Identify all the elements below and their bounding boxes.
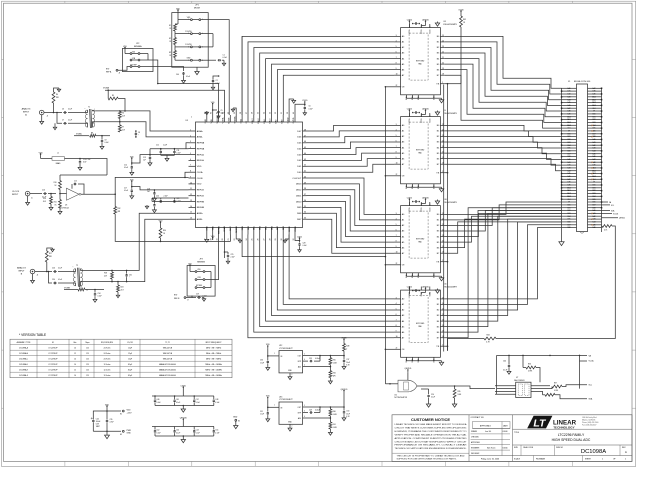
- svg-text:VERIFY PROPER AND RELIABLE OPE: VERIFY PROPER AND RELIABLE OPERATION IN …: [395, 434, 468, 437]
- U11 ground symbol: [434, 360, 442, 362]
- svg-text:VDD: VDD: [176, 8, 181, 10]
- svg-text:52: 52: [275, 112, 277, 114]
- svg-text:5: 5: [396, 46, 397, 48]
- junction J1 right gnd: [601, 144, 603, 146]
- U9 pin A2: [394, 136, 401, 138]
- U11 pin T/B: [440, 345, 444, 347]
- resistor R40 1.05K: [329, 407, 331, 409]
- svg-text:22: 22: [234, 239, 236, 241]
- J1 left pin row 45: [562, 212, 577, 214]
- capacitor C50 0.1uF: [174, 427, 176, 430]
- svg-text:2.2uF: 2.2uF: [164, 196, 168, 198]
- U5 pin 1 AINA+: [189, 130, 196, 132]
- svg-text:R48: R48: [346, 346, 349, 348]
- wire U10 B1 to J1 row 42: [444, 205, 561, 220]
- junction J1 left gnd: [561, 167, 563, 169]
- svg-text:MUX: MUX: [230, 225, 232, 230]
- U9 pin B0: [440, 124, 444, 126]
- U5 pin 5 REFLA: [189, 154, 196, 156]
- svg-text:125: 125: [86, 369, 89, 371]
- U11 pin A6: [394, 331, 401, 333]
- wire OE stub: [385, 175, 394, 177]
- J1 left pin row 27: [562, 161, 577, 163]
- svg-text:10: 10: [74, 364, 76, 366]
- resistor R6 24.9 shunt: [119, 110, 121, 112]
- wire EXT REF A to JP2 row3: [118, 67, 130, 71]
- svg-text:EXPOSED: EXPOSED: [416, 150, 425, 152]
- svg-text:0.1uF: 0.1uF: [105, 142, 109, 144]
- svg-text:LT: LT: [533, 418, 547, 430]
- wire T/B bus to R34: [448, 339, 450, 351]
- svg-text:SCL: SCL: [589, 385, 593, 387]
- svg-text:10: 10: [74, 347, 76, 349]
- svg-text:C7: C7: [62, 120, 64, 122]
- capacitor C11 0.1uF channel A rail: [174, 148, 176, 150]
- svg-text:J3: J3: [119, 73, 121, 75]
- svg-text:C29: C29: [196, 294, 199, 296]
- U8 pin A6: [394, 69, 401, 71]
- inverter U3 NC7SVU04 clock buffer: [67, 188, 80, 200]
- U5 pin 32 OVDD: [294, 228, 296, 235]
- svg-text:Friday, June 16, 2006: Friday, June 16, 2006: [481, 458, 499, 461]
- svg-text:0.1uF: 0.1uF: [221, 113, 225, 115]
- resistor R11 1K bias lower: [59, 194, 61, 200]
- svg-text:CLKB: CLKB: [197, 178, 203, 180]
- svg-text:12: 12: [74, 353, 76, 355]
- svg-text:QEVDD: QEVDD: [422, 197, 429, 199]
- ground J1 left bus: [559, 240, 564, 246]
- U8 pin B5: [440, 63, 444, 65]
- svg-text:2.2uF: 2.2uF: [231, 257, 235, 259]
- svg-text:C55: C55: [215, 430, 218, 432]
- connector J5 BNC clock: [25, 191, 30, 196]
- svg-text:DB4: DB4: [593, 196, 596, 198]
- U5 pin 55 DA12: [259, 115, 261, 122]
- svg-text:C16: C16: [42, 190, 45, 192]
- wire OE stub: [385, 348, 394, 350]
- svg-text:0.1uF: 0.1uF: [98, 296, 102, 298]
- svg-text:C12: C12: [156, 145, 159, 147]
- svg-text:0.1uF: 0.1uF: [124, 167, 128, 169]
- wire DA7 ADC top to U8 A6: [277, 70, 394, 115]
- J1 left pin row 46: [562, 215, 577, 217]
- svg-text:R11: R11: [54, 202, 57, 204]
- wire REFHB rails: [152, 197, 189, 199]
- svg-text:DALC208SC6: DALC208SC6: [514, 379, 525, 382]
- svg-text:C9,C31: C9,C31: [127, 342, 133, 344]
- wire OE stub: [385, 86, 394, 88]
- J1 left pin row 16: [562, 130, 577, 132]
- svg-text:SUPPLIED FOR USE WITH LINEAR T: SUPPLIED FOR USE WITH LINEAR TECHNOLOGY …: [397, 458, 457, 461]
- wire U8 B3 to J1 row 7: [444, 53, 561, 105]
- junction J1 left gnd: [561, 113, 563, 115]
- svg-text:7: 7: [396, 57, 397, 59]
- J1 left pin row 2: [562, 90, 577, 92]
- svg-text:3: 3: [396, 124, 397, 126]
- wire DB5 ADC bottom to U11 A1: [283, 235, 394, 305]
- connector J4 BNC input B: [30, 269, 35, 274]
- svg-text:DB5: DB5: [593, 128, 596, 130]
- svg-text:12pF: 12pF: [128, 353, 132, 355]
- svg-text:U6: U6: [394, 394, 396, 396]
- svg-text:39: 39: [304, 182, 306, 184]
- U9 ground pins: [405, 184, 407, 187]
- svg-text:125: 125: [86, 364, 89, 366]
- capacitor C44 0.1uF: [183, 72, 185, 73]
- U8 pin B1: [440, 41, 444, 43]
- capacitor C24 0.1uF: [428, 389, 430, 394]
- wire T1 secondary bottom: [96, 122, 189, 137]
- wire VDD to REFLA: [132, 155, 189, 163]
- wire MODE vertical is above; SHDNA ground: [233, 108, 236, 115]
- J1 right pin row 47: [588, 218, 602, 220]
- svg-text:OEB: OEB: [242, 225, 244, 230]
- U10 pin A7: [394, 252, 401, 254]
- svg-text:GND: GND: [205, 119, 207, 124]
- svg-text:33: 33: [304, 218, 306, 220]
- capacitor C18 1uF channel B: [154, 189, 156, 191]
- svg-text:PERFORMANCE OR RELIABILITY. C: PERFORMANCE OR RELIABILITY. CONTACT LINE…: [395, 444, 468, 447]
- resistor R41 1.05K: [329, 418, 331, 422]
- svg-text:7: 7: [396, 146, 397, 148]
- U8 pin B6: [440, 69, 444, 71]
- svg-text:8: 8: [396, 241, 397, 243]
- J1 right pin row 4: [588, 96, 602, 98]
- U5 pin 62 SENSEA: [218, 115, 220, 122]
- svg-text:0.1uF: 0.1uF: [176, 402, 180, 404]
- junction J1 left gnd: [561, 181, 563, 183]
- wire VCMB vertical to ADC: [224, 235, 226, 259]
- wire JP2 common to SENSEA net: [147, 54, 149, 61]
- U5 pin 37 DB11: [303, 195, 307, 197]
- J1 left pin row 48: [562, 221, 577, 223]
- wire D43 ADC to U9 A4: [307, 148, 395, 155]
- node VDD flag power entry: [106, 406, 108, 408]
- capacitor C20 2.2uF channel B rail: [160, 201, 162, 203]
- J1 right pin row 50: [588, 227, 602, 229]
- J1 left pin row 17: [562, 133, 577, 135]
- svg-text:U1: U1: [52, 342, 54, 344]
- U5 pin 30 DB6: [282, 228, 284, 235]
- svg-text:DB7: DB7: [568, 224, 571, 226]
- svg-text:0.01uF: 0.01uF: [315, 409, 320, 411]
- J1 left pin row 43: [562, 207, 577, 209]
- J1 right pin row 40: [588, 198, 602, 200]
- wire CVDD bank rail bottom: [155, 405, 214, 407]
- wire T/B stub: [444, 345, 447, 347]
- svg-text:10: 10: [396, 163, 398, 165]
- svg-text:0.1uF: 0.1uF: [431, 397, 435, 399]
- svg-text:CVDD: CVDD: [407, 19, 413, 21]
- svg-text:0.1uF: 0.1uF: [157, 432, 161, 434]
- J1 left pin row 30: [562, 170, 577, 172]
- svg-text:VDD: VDD: [197, 184, 202, 186]
- svg-text:CLK: CLK: [568, 128, 571, 130]
- U9 ground symbol: [434, 186, 442, 188]
- U5 pin 26 DB2: [259, 228, 261, 235]
- svg-text:VCCB: VCCB: [430, 119, 432, 123]
- J1 right pin row 19: [588, 139, 602, 141]
- junction J1 right gnd: [601, 127, 603, 128]
- wire U10 B7 to J1 row 48: [444, 222, 561, 253]
- svg-text:27: 27: [263, 239, 265, 241]
- svg-text:4.7k: 4.7k: [604, 230, 607, 232]
- U9 pin T/B: [440, 172, 444, 174]
- junction J1 right gnd: [601, 150, 603, 152]
- wire D40 ADC to U9 A7: [307, 164, 395, 172]
- J1 right pin row 20: [588, 141, 602, 143]
- junction J1 right gnd: [601, 196, 603, 198]
- capacitor C15 feedback: [71, 184, 73, 189]
- svg-text:0.1uF: 0.1uF: [196, 432, 200, 434]
- svg-text:56: 56: [252, 112, 254, 114]
- svg-text:C54: C54: [196, 430, 199, 432]
- wire BNC A to C3: [44, 112, 62, 114]
- wire DB-1 ADC bottom to U11 A7: [248, 235, 394, 338]
- J1 right pin row 43: [588, 207, 602, 209]
- svg-text:REF A: REF A: [106, 71, 112, 74]
- svg-text:VCCB: VCCB: [421, 30, 423, 34]
- wire clock to CLKB: [115, 177, 188, 194]
- capacitor C8 shunt: [135, 130, 137, 132]
- customer notice box: [393, 452, 470, 454]
- svg-text:DB8: DB8: [568, 227, 571, 229]
- svg-text:REFHB: REFHB: [197, 201, 205, 203]
- wire DA6 ADC top to U8 A7: [283, 75, 394, 115]
- svg-text:OVDD: OVDD: [293, 117, 295, 123]
- J1 right pin row 11: [588, 116, 602, 118]
- title block row line under title: [513, 444, 633, 446]
- J1 left pin row 31: [562, 173, 577, 175]
- wire D42 ADC to U9 A5: [307, 153, 395, 160]
- svg-text:7: 7: [396, 235, 397, 237]
- wire T1 secondary top: [96, 111, 189, 131]
- wire U11 B1 to J1 row 49: [444, 225, 561, 305]
- ground J4: [32, 274, 34, 279]
- wire VDD clock rail: [80, 159, 107, 176]
- svg-text:R41: R41: [333, 424, 336, 426]
- svg-text:20: 20: [442, 63, 444, 65]
- svg-text:REFLB: REFLB: [197, 190, 205, 192]
- svg-text:ADJ: ADJ: [298, 417, 301, 420]
- svg-text:125: 125: [86, 358, 89, 360]
- svg-text:4: 4: [190, 147, 191, 149]
- node CVDD flag cap bank: [182, 387, 184, 389]
- junction J1 right gnd: [601, 99, 603, 101]
- junction J1 right gnd: [601, 116, 603, 118]
- svg-text:9: 9: [190, 176, 191, 178]
- svg-text:6/16/06: 6/16/06: [503, 447, 508, 449]
- svg-text:49.9: 49.9: [43, 201, 46, 203]
- resistor R26 WR: [329, 367, 331, 371]
- svg-text:4.7uF: 4.7uF: [110, 422, 114, 424]
- svg-text:INPUT: INPUT: [18, 270, 25, 272]
- wire T/B stub: [444, 261, 447, 263]
- svg-text:0.1uF: 0.1uF: [157, 402, 161, 404]
- svg-text:3: 3: [396, 213, 397, 215]
- ground at U5 GND top pin: [206, 111, 208, 115]
- svg-text:VDD: VDD: [213, 225, 215, 230]
- svg-text:C49: C49: [309, 409, 312, 411]
- wire U9 B0 to J1 row 16: [444, 125, 561, 130]
- wire DA9 ADC top to U8 A4: [266, 59, 394, 115]
- U8 pin A0: [394, 35, 401, 37]
- wire DB6 ADC bottom to U11 A0: [289, 235, 394, 299]
- capacitor C23 and grounds channel B: [153, 201, 155, 203]
- svg-text:10: 10: [190, 182, 192, 184]
- svg-text:DB7: DB7: [568, 153, 571, 155]
- U5 pin 44 D43: [303, 154, 307, 156]
- wire U8 B1 to J1 row 3: [444, 42, 561, 94]
- U10 pin B5: [440, 241, 444, 243]
- U11 pin A7: [394, 337, 401, 339]
- wire U11 B3 to J1 row 47: [444, 219, 561, 315]
- svg-text:6: 6: [396, 230, 397, 232]
- wire CVDD bank rail top: [152, 395, 214, 397]
- svg-text:23: 23: [442, 46, 444, 48]
- J1 right pin row 3: [588, 93, 602, 95]
- resistor R17 pulldown input B: [46, 262, 48, 272]
- svg-text:J7: J7: [187, 300, 189, 302]
- svg-text:SCALE: SCALE: [514, 458, 521, 461]
- svg-text:22: 22: [396, 348, 398, 350]
- J1 left pin row 41: [562, 201, 577, 203]
- size cage dwg row: [520, 445, 522, 456]
- svg-text:46: 46: [304, 141, 306, 143]
- svg-text:REFHB: REFHB: [197, 207, 205, 209]
- capacitor decoupling at buffers row 3: [414, 201, 415, 203]
- svg-text:36: 36: [304, 200, 306, 202]
- wire U13 ADJ: [303, 417, 331, 419]
- svg-text:CVDD: CVDD: [302, 100, 308, 102]
- U5 pin 18 VDD: [212, 228, 214, 235]
- svg-text:EDGE-CON-100: EDGE-CON-100: [574, 81, 591, 83]
- svg-text:R26: R26: [333, 373, 336, 375]
- wire EXT REF B to JP3: [186, 296, 192, 298]
- wires U7 outputs: [531, 385, 550, 387]
- svg-text:LTC2291UP: LTC2291UP: [49, 364, 58, 366]
- J1 left pin row 50: [562, 227, 577, 229]
- svg-text:OVDD: OVDD: [295, 225, 297, 231]
- resistor R36 4.99K: [522, 355, 524, 367]
- J1 right pin row 18: [588, 136, 602, 138]
- ground at buffers row 3: [435, 200, 439, 205]
- U9 pin B3: [440, 141, 444, 143]
- U9 pin A0: [394, 124, 401, 126]
- U10 pin A0: [394, 213, 401, 215]
- svg-text:LTC2296 FAMILY: LTC2296 FAMILY: [558, 433, 585, 437]
- U5 pin 3 REFHA: [189, 142, 196, 144]
- wire DB10 ADC to U10 A6: [307, 213, 395, 247]
- svg-text:REFHA: REFHA: [197, 142, 205, 145]
- node QEVDD flag cap bank: [182, 419, 184, 421]
- U5 pin 14 REFHB: [189, 206, 196, 208]
- junction J1 left gnd: [561, 139, 563, 141]
- svg-text:R10: R10: [54, 182, 57, 184]
- svg-text:21: 21: [228, 239, 230, 241]
- node QEVDD flag at buffers row 3: [425, 199, 427, 201]
- junction J1 left gnd: [561, 187, 563, 189]
- svg-text:DB1: DB1: [593, 187, 596, 189]
- svg-text:3: 3: [190, 141, 191, 143]
- J1 left pin row 12: [562, 119, 577, 121]
- wire REFLA lower rail: [161, 154, 175, 156]
- junction J1 right gnd: [601, 162, 603, 164]
- junction J1 right gnd: [601, 133, 603, 135]
- svg-text:JP2: JP2: [136, 43, 139, 45]
- U8 pin B4: [440, 58, 444, 60]
- node VDD flag U12 input: [267, 346, 269, 348]
- wires U7 inputs: [495, 385, 516, 387]
- U5 pin 58 OEA: [241, 115, 243, 122]
- wire U10 B2 to J1 row 43: [444, 208, 561, 226]
- wire VDD to REFLB: [132, 187, 189, 190]
- svg-text:LTC2291UP: LTC2291UP: [49, 347, 58, 349]
- svg-text:1uF: 1uF: [143, 160, 146, 162]
- U5 pin 17 GND: [206, 228, 208, 235]
- J1 left pin row 4: [562, 96, 577, 98]
- svg-text:E3: E3: [120, 434, 122, 436]
- svg-text:QEVDD: QEVDD: [422, 19, 429, 21]
- svg-text:CUSTOMER NOTICE: CUSTOMER NOTICE: [411, 417, 450, 422]
- svg-text:LT1763CS8-BYP: LT1763CS8-BYP: [279, 348, 293, 350]
- U8 ground pins: [405, 95, 407, 98]
- J1 left pin row 29: [562, 167, 577, 169]
- svg-text:VCMB: VCMB: [224, 225, 226, 231]
- J1 left pin row 40: [562, 198, 577, 200]
- U10 pin OE: [394, 264, 401, 266]
- junction J1 left gnd: [561, 173, 563, 175]
- U10 pin A2: [394, 225, 401, 227]
- J1 left pin row 34: [562, 181, 577, 183]
- J1 left pin row 32: [562, 175, 577, 177]
- svg-text:24: 24: [442, 40, 444, 42]
- svg-text:7: 7: [190, 165, 191, 167]
- U11 pin A0: [394, 298, 401, 300]
- svg-text:45: 45: [304, 147, 306, 149]
- ground CVDD bank: [183, 405, 185, 407]
- svg-text:INPUT: INPUT: [23, 111, 30, 113]
- U5 pin 16 AINB-: [189, 218, 196, 220]
- U8 pin B2: [440, 47, 444, 49]
- U11 pin A4: [394, 320, 401, 322]
- node CVDD flag at buffers row 4: [408, 288, 410, 290]
- svg-text:VCMA: VCMA: [222, 117, 225, 123]
- wire VCCA vertical: [579, 355, 581, 388]
- J1 right pin row 5: [588, 99, 602, 101]
- node VDD flag at U5 bottom VDD pin: [212, 238, 214, 240]
- J1 left pin row 44: [562, 210, 577, 212]
- J1 left pin row 42: [562, 204, 577, 206]
- wire left drop to U7 inputs: [496, 355, 498, 394]
- J1 left pin row 9: [562, 110, 577, 112]
- U10 power pins VCCA VCCB: [408, 202, 410, 206]
- svg-text:BEAD: BEAD: [56, 162, 61, 165]
- connector J1 body: [577, 84, 588, 232]
- capacitor C2 2.2uF: [218, 75, 220, 77]
- svg-text:10: 10: [396, 336, 398, 338]
- U5 pin 11 REFLB: [189, 189, 196, 191]
- J1 right pin row 34: [588, 181, 602, 183]
- svg-text:DB5: DB5: [593, 199, 596, 201]
- wire JP1 rows 4-6-8 stubs: [208, 33, 213, 35]
- wire T/B stub: [444, 83, 447, 85]
- J1 left pin row 49: [562, 224, 577, 226]
- U10 pin A3: [394, 230, 401, 232]
- jumper block JP1 MODE: [172, 13, 208, 68]
- wire DB1 ADC bottom to U11 A5: [260, 235, 394, 327]
- svg-text:24.9: 24.9: [122, 130, 125, 132]
